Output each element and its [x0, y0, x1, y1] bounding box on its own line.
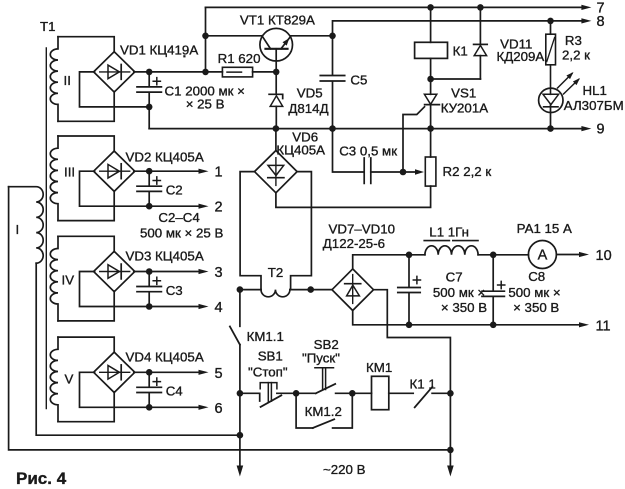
- svg-text:500 мк × 25 В: 500 мк × 25 В: [140, 226, 223, 241]
- contact K1.1: [410, 377, 451, 408]
- svg-text:"Пуск": "Пуск": [302, 351, 340, 366]
- svg-text:500 мк ×: 500 мк ×: [508, 285, 560, 300]
- wire: [134, 69, 209, 76]
- bridge rectifier VD4: [94, 350, 204, 393]
- transformer T1 winding V: [50, 337, 73, 422]
- svg-text:2,2 к: 2,2 к: [562, 48, 590, 63]
- node 6: [215, 401, 223, 417]
- wire: [291, 172, 312, 290]
- node 1: [215, 165, 223, 181]
- transformer T1 winding IV: [50, 236, 74, 321]
- ammeter PA1: [517, 221, 572, 269]
- LED HL1: [539, 65, 624, 129]
- capacitor С2: [137, 171, 183, 206]
- wire: [58, 92, 114, 122]
- wire: [427, 76, 480, 83]
- svg-text:I: I: [16, 222, 20, 237]
- svg-text:VD3 КЦ405А: VD3 КЦ405А: [126, 249, 204, 264]
- node 8: [597, 14, 605, 30]
- svg-text:R1 620: R1 620: [218, 51, 261, 66]
- mains lead right: [447, 450, 454, 477]
- capacitor С4: [137, 372, 183, 407]
- transformer T1 winding II: [50, 37, 71, 122]
- svg-text:R3: R3: [565, 33, 582, 48]
- bridge rectifier VD6: [255, 129, 326, 193]
- wire: [202, 33, 262, 40]
- svg-text:8: 8: [597, 14, 605, 30]
- wire: [353, 252, 425, 269]
- node 7: [597, 0, 605, 16]
- wire: [134, 168, 209, 175]
- svg-text:КМ1.2: КМ1.2: [305, 404, 342, 419]
- svg-text:11: 11: [596, 319, 611, 335]
- svg-text:1: 1: [215, 165, 223, 181]
- wire: [478, 252, 528, 259]
- svg-text:КЦ405А: КЦ405А: [276, 143, 325, 158]
- contact KM1.1: [230, 290, 284, 394]
- svg-text:КД209А: КД209А: [497, 49, 545, 64]
- wire: [205, 7, 207, 72]
- diode VD11: [474, 4, 545, 79]
- wire: [58, 337, 114, 353]
- svg-text:VT1 КТ829А: VT1 КТ829А: [240, 13, 315, 28]
- svg-text:"Стоп": "Стоп": [248, 365, 288, 380]
- wire: [58, 236, 114, 252]
- svg-text:К1 1: К1 1: [410, 377, 436, 392]
- bridge rectifier VD7-VD10: [323, 222, 395, 311]
- svg-text:С5: С5: [350, 73, 367, 88]
- inductor L1: [424, 225, 478, 255]
- svg-text:HL1: HL1: [583, 83, 607, 98]
- node 2: [215, 200, 223, 216]
- label ~220V: [323, 462, 366, 477]
- svg-text:КУ201А: КУ201А: [441, 101, 489, 116]
- transistor VT1: [240, 13, 315, 72]
- svg-text:II: II: [64, 73, 71, 88]
- svg-text:С7: С7: [446, 270, 463, 285]
- svg-text:VD4 КЦ405А: VD4 КЦ405А: [126, 350, 204, 365]
- wire: [80, 72, 153, 110]
- node: [349, 390, 356, 397]
- wire: [58, 37, 114, 53]
- zener diode VD5: [269, 72, 329, 129]
- wire: [36, 263, 240, 435]
- bridge rectifier VD2: [94, 150, 204, 192]
- node: [237, 390, 244, 397]
- resistor R2: [276, 129, 491, 208]
- svg-text:5: 5: [215, 366, 223, 382]
- svg-text:L1 1Гн: L1 1Гн: [429, 225, 469, 240]
- wire: [240, 172, 261, 290]
- wire: [237, 286, 261, 293]
- svg-text:VD7–VD10: VD7–VD10: [329, 222, 396, 237]
- capacitor С3: [137, 272, 183, 307]
- wire: [374, 290, 454, 454]
- wire: [291, 33, 336, 40]
- svg-text:КМ1: КМ1: [366, 360, 392, 375]
- svg-text:R2 2,2 к: R2 2,2 к: [443, 164, 492, 179]
- svg-text:С4: С4: [166, 384, 183, 399]
- mains lead left: [237, 435, 244, 476]
- wire: [9, 187, 451, 450]
- svg-text:АЛ307БМ: АЛ307БМ: [564, 98, 624, 113]
- thyristor VS1: [403, 79, 488, 172]
- svg-text:С2: С2: [166, 183, 183, 198]
- svg-text:Т2: Т2: [268, 265, 284, 280]
- wire line 9 rail: [149, 125, 591, 132]
- label C2-C4: [140, 210, 223, 241]
- node 9: [597, 122, 605, 138]
- svg-text:× 350 В: × 350 В: [513, 300, 559, 315]
- svg-text:× 25 В: × 25 В: [186, 97, 225, 112]
- svg-text:С2–С4: С2–С4: [158, 210, 199, 225]
- svg-text:РА1 15 А: РА1 15 А: [517, 221, 572, 236]
- resistor R1: [206, 51, 280, 77]
- bridge rectifier VD1: [94, 43, 199, 93]
- svg-text:9: 9: [597, 122, 605, 138]
- wire: [371, 169, 424, 176]
- relay K1: [415, 4, 468, 79]
- transformer T1 core: [40, 19, 56, 409]
- wire: [134, 369, 209, 376]
- transformer T1 winding III: [50, 136, 75, 221]
- wire line 8 rail: [333, 18, 592, 36]
- svg-text:VD2 КЦ405А: VD2 КЦ405А: [126, 150, 204, 165]
- resistor R3: [546, 18, 590, 65]
- contact KM1.2: [296, 393, 352, 428]
- wire line 7 rail: [206, 5, 592, 10]
- svg-text:К1: К1: [453, 44, 468, 59]
- wire: [58, 291, 114, 321]
- svg-text:КМ1.1: КМ1.1: [247, 329, 284, 344]
- pushbutton SB2: [296, 337, 352, 393]
- svg-text:6: 6: [215, 401, 223, 417]
- capacitor C7: [398, 255, 487, 325]
- wire: [58, 191, 114, 221]
- node 11: [596, 319, 611, 335]
- svg-text:~220 В: ~220 В: [323, 462, 366, 477]
- node 10: [596, 248, 612, 264]
- svg-text:4: 4: [215, 300, 223, 316]
- svg-text:3: 3: [215, 265, 223, 281]
- transformer T1 winding I: [9, 187, 44, 264]
- svg-text:С8: С8: [528, 269, 545, 284]
- capacitor C1: [137, 72, 245, 112]
- node 4: [215, 300, 223, 316]
- capacitor C8: [482, 255, 561, 325]
- svg-text:VS1: VS1: [451, 86, 476, 101]
- svg-text:VD1 КЦ419А: VD1 КЦ419А: [120, 43, 198, 58]
- wire: [80, 272, 209, 310]
- svg-text:× 350 В: × 350 В: [441, 300, 487, 315]
- svg-text:III: III: [64, 165, 75, 180]
- wire: [58, 392, 114, 422]
- svg-text:Т1: Т1: [40, 19, 56, 34]
- capacitor C3 0,5mk: [333, 129, 398, 184]
- relay coil KM1: [352, 360, 413, 410]
- svg-text:Рис. 4: Рис. 4: [16, 469, 67, 488]
- svg-text:SB1: SB1: [258, 349, 283, 364]
- wire: [58, 136, 114, 152]
- svg-text:С3 0,5 мк: С3 0,5 мк: [339, 144, 397, 159]
- svg-text:500 мк ×: 500 мк ×: [433, 285, 485, 300]
- transformer T2 winding: [261, 265, 290, 297]
- svg-text:VD5: VD5: [297, 86, 323, 101]
- node 5: [215, 366, 223, 382]
- wire line 10: [556, 252, 589, 257]
- svg-text:А: А: [538, 248, 548, 264]
- wire: [80, 171, 209, 209]
- svg-text:IV: IV: [62, 273, 75, 288]
- capacitor C5: [320, 36, 367, 129]
- wire: [134, 268, 209, 275]
- wire: [237, 393, 244, 438]
- wire: [80, 372, 209, 410]
- svg-text:Д122-25-6: Д122-25-6: [323, 236, 385, 251]
- svg-text:10: 10: [596, 248, 612, 264]
- svg-text:Д814Д: Д814Д: [288, 101, 328, 116]
- node 3: [215, 265, 223, 281]
- wire: [148, 107, 150, 129]
- svg-text:V: V: [65, 372, 74, 387]
- svg-text:С3: С3: [166, 283, 183, 298]
- pushbutton SB1: [240, 349, 296, 407]
- svg-text:2: 2: [215, 200, 223, 216]
- wire: [290, 286, 332, 293]
- node: [293, 390, 300, 397]
- bridge rectifier VD3: [94, 249, 204, 292]
- caption: [16, 469, 67, 488]
- wire line 11 rail: [353, 311, 589, 329]
